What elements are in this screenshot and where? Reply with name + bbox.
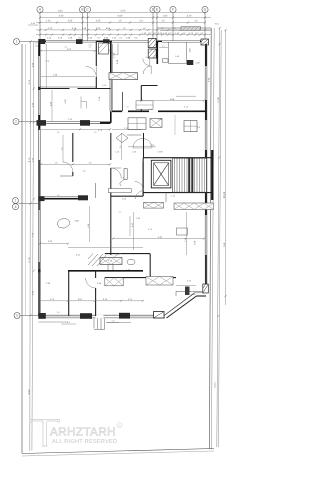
bench box low [108, 189, 131, 193]
casework boxes x136 [136, 101, 153, 110]
south wall door gap [96, 315, 104, 318]
watermark T logo [30, 420, 60, 447]
closet crossed bar east [174, 203, 214, 210]
stair rail dark band [188, 158, 193, 193]
west wall window lines [37, 44, 39, 316]
south dim 1.4 b [107, 322, 119, 324]
kitchen counter 2 [150, 118, 162, 127]
svg-text:G: G [204, 8, 207, 12]
svg-text:6.60: 6.60 [118, 15, 123, 18]
stair hall top wall [143, 157, 213, 159]
svg-text:1: 1 [16, 40, 18, 44]
bath sink [127, 259, 135, 265]
svg-text:2: 2 [15, 199, 17, 203]
dim row 5 numbers [36, 34, 211, 36]
svg-text:2.55: 2.55 [68, 20, 73, 23]
right dim line B [225, 30, 227, 305]
north wall window w1 [46, 40, 57, 42]
lot boundary left inner [25, 44, 27, 316]
wall v x142 center low [142, 162, 144, 196]
column NW [38, 39, 45, 44]
hex shape [116, 134, 128, 143]
grid bubble E top [154, 6, 160, 12]
chamfer to east wall join [197, 295, 207, 297]
elevator shaft [151, 160, 171, 188]
svg-text:ALL RIGHT RESERVED: ALL RIGHT RESERVED [52, 439, 117, 445]
grid bubble G top [202, 6, 208, 12]
svg-text:2: 2 [15, 120, 17, 124]
dim 3.05 room big left [51, 90, 53, 121]
bath walls [105, 253, 150, 255]
boundary wall dark at stairs [211, 150, 213, 200]
door leaf top [163, 59, 169, 62]
wall v x96 upper [95, 41, 97, 66]
lot boundary right outer [210, 28, 212, 449]
grid bubble 1b left [13, 119, 19, 125]
dim 2.71 chamfer [176, 285, 196, 287]
pier S3 [154, 312, 165, 319]
wall v x72 low [72, 172, 74, 176]
wall h y88 [40, 88, 70, 90]
terrace line sw [39, 321, 69, 323]
grid line 2-3 stem [19, 203, 39, 205]
door leaf x126 [124, 169, 127, 180]
dim v x63 y135-162 [62, 135, 64, 162]
small dim top right room [159, 47, 168, 49]
chamfer wall SE [167, 296, 197, 318]
wall h y122 window lines [40, 121, 110, 123]
grid bubble 1 left [14, 39, 20, 45]
dim arrows y96 left [176, 95, 196, 97]
west wall thick seg1 [38, 41, 40, 56]
svg-text:F: F [172, 8, 174, 12]
lot boundary bottom outer [22, 449, 214, 454]
wall v x68 [68, 271, 70, 316]
wall v x141 center [140, 86, 142, 112]
north wall window 1 [112, 40, 148, 42]
west wall thick seg4 [38, 262, 40, 318]
kitchen dim v x175 [174, 115, 176, 135]
grid bubble B top [79, 6, 85, 12]
dim 4.41 room [113, 238, 204, 240]
dim 2.40 room1 v [41, 75, 95, 77]
svg-text:+2.98: +2.98 [157, 151, 163, 154]
closet L-step big room [81, 97, 87, 109]
dim 4.66 big right [142, 100, 205, 102]
blob dark chamfer area [185, 287, 190, 296]
wall v x96 lower [95, 77, 97, 89]
svg-text:1.60: 1.60 [163, 15, 168, 18]
extra dim v x130 y214-238 [129, 216, 131, 236]
svg-text:4.66: 4.66 [170, 98, 175, 101]
grid bubble 5 left [14, 313, 20, 319]
column N2 [76, 39, 83, 44]
dim row y129 left [39, 128, 110, 130]
dim row 2 [40, 17, 211, 19]
grid line B stem [82, 13, 84, 41]
wall v x122 small [122, 92, 124, 111]
crossed service box [109, 73, 138, 80]
wall v x112 second [112, 44, 114, 110]
bath door arc [113, 254, 121, 262]
door arc stair west [135, 182, 144, 191]
diag hatch patch [88, 254, 106, 267]
svg-text:31.05: 31.05 [223, 191, 226, 198]
north wall window w2 [57, 40, 96, 42]
terrace line s mid [106, 321, 131, 323]
window crossed south 2 [100, 258, 122, 265]
extra dim h y147 doors [128, 146, 156, 148]
dim v x121 y133-160 [121, 133, 123, 160]
north wall east segment [200, 40, 207, 42]
west wall thick seg2 [38, 115, 40, 130]
wall v x95 [95, 271, 97, 278]
svg-text:8.10: 8.10 [28, 157, 31, 162]
svg-text:4.50: 4.50 [28, 389, 31, 394]
dim row 3 [36, 22, 205, 24]
grid line C stem [87, 13, 89, 41]
extra dim v x46 [45, 44, 47, 88]
window crossed south 1 [146, 277, 173, 286]
grid line E stem [156, 13, 158, 40]
south wall window lines [39, 314, 166, 316]
wall h y199 west [39, 198, 88, 200]
svg-text:11.35: 11.35 [217, 96, 220, 102]
svg-text:+0.45: +0.45 [190, 293, 196, 296]
grid bubble D top [150, 6, 156, 12]
bath wc [108, 264, 113, 271]
svg-text:1.60: 1.60 [58, 10, 63, 13]
svg-text:4.41: 4.41 [158, 236, 163, 239]
door arc lower room [136, 191, 145, 199]
west wall thick seg3 [38, 160, 40, 210]
column N3 [103, 39, 110, 44]
niche h y63 [169, 63, 187, 65]
wall h y176 [60, 175, 73, 177]
svg-text:R: R [118, 423, 120, 427]
left dim line B [32, 42, 34, 451]
closet divider x95 [95, 183, 97, 198]
wall v x143 mid [143, 133, 145, 158]
column S2 [119, 313, 130, 319]
north door arc [107, 44, 118, 55]
cloud ellipse [57, 219, 69, 228]
tiny marks left of wall [35, 43, 38, 46]
pier y199 end [78, 195, 88, 200]
column N4 hatched [148, 39, 156, 59]
wall stub x166 y196-203 [165, 193, 167, 203]
wall h y85 center [141, 85, 157, 87]
column niche [187, 60, 194, 65]
wall h y122 seg east [100, 122, 111, 124]
grid line D stem [152, 13, 154, 40]
south dim 1.4 a [61, 323, 76, 325]
door arc center [143, 66, 151, 74]
north wall west segment [39, 40, 47, 42]
lot boundary right inner [211, 28, 214, 450]
porch steps below south wall [94, 319, 105, 330]
column SW [38, 313, 46, 319]
dim y164 row left [41, 163, 110, 165]
grid bubble 3 left [13, 204, 19, 210]
right dim line A2 [218, 30, 221, 447]
west wall junction y88 [38, 87, 41, 90]
pier y122 west [37, 120, 47, 126]
west wall junction y270 [38, 269, 41, 272]
grid line 1 stem [20, 41, 39, 43]
dim row y300 [39, 300, 143, 302]
grid line G stem [204, 13, 206, 44]
pier y199 [39, 196, 45, 201]
kitchen counter 1 [128, 118, 146, 130]
watermark R mark [117, 423, 122, 428]
grid bubble A top [37, 6, 43, 12]
door arc x95 [86, 278, 96, 288]
dim y129 small row [112, 129, 141, 131]
dim v x89 rot [89, 206, 91, 242]
dim 6.11 top [68, 247, 143, 249]
svg-text:7.66: 7.66 [223, 242, 226, 247]
window right wall rect [177, 228, 188, 235]
svg-text:13.10: 13.10 [213, 381, 216, 387]
wall v x110 seg2 [110, 168, 112, 255]
lot boundary top right [157, 27, 211, 29]
svg-text:5: 5 [16, 314, 18, 318]
wall h y270 thick [68, 270, 143, 272]
svg-text:8.10: 8.10 [28, 79, 31, 84]
niche v x186 [186, 42, 188, 64]
door arc room D [143, 59, 150, 66]
wall v x110 thin mid [109, 80, 111, 112]
stair hall bottom wall [143, 192, 213, 194]
wall v x110 main [110, 41, 112, 73]
north wall window 2 [162, 40, 200, 42]
svg-text:3.20: 3.20 [187, 15, 192, 18]
svg-text:2.25: 2.25 [96, 20, 101, 23]
north wall seg 96-112 [96, 40, 112, 42]
right dim line A [217, 28, 220, 447]
wall v x157 top rooms [156, 41, 158, 64]
door arc x72 [63, 162, 73, 172]
wall h y196 center [111, 195, 143, 197]
column NE hatched [201, 39, 209, 45]
column S1b [80, 313, 92, 319]
grid bubble F top [170, 6, 176, 12]
svg-text:3: 3 [15, 205, 17, 209]
squiggle symbol [120, 177, 124, 186]
column SE hatched [203, 284, 209, 293]
grid line F stem [172, 13, 174, 41]
dim v x186 room [186, 212, 188, 255]
neighbour wall hatched top right [181, 27, 201, 30]
wall h y110 gap west [122, 110, 128, 112]
step edge below chamfer [176, 290, 203, 292]
north wall mid segment [148, 40, 162, 42]
pier y122 mid [80, 120, 90, 126]
stair west wall [142, 158, 144, 196]
door arc room1 [86, 67, 97, 78]
svg-text:7.66: 7.66 [194, 240, 197, 245]
label 0.60 top left [28, 24, 38, 26]
window crossed south 1b [105, 278, 123, 286]
grid line 5 stem [20, 315, 38, 317]
svg-text:1.70: 1.70 [46, 20, 51, 23]
east wall thick seg1 [205, 44, 207, 66]
grid line 1b stem [19, 121, 38, 123]
closet crossed bar west [144, 202, 164, 208]
grid line A stem [39, 13, 41, 41]
dim v x133 room [133, 212, 135, 250]
grid bubble C top [84, 6, 90, 12]
wall v x110 pier low [110, 111, 112, 123]
dim row 1 overall [40, 12, 205, 14]
grid bubble 2 left [13, 198, 19, 204]
stair flight treads [173, 158, 207, 192]
double door arcs center [133, 139, 152, 149]
east wall window lines [204, 46, 206, 293]
svg-text:5.00: 5.00 [121, 10, 126, 13]
kitchen small box [184, 121, 197, 132]
niche v x168 [168, 42, 170, 64]
dim row 4 [36, 29, 211, 31]
wall v x72 [72, 133, 74, 162]
east wall thick seg2 [205, 100, 207, 120]
wall h y110 right wing [112, 110, 206, 112]
duct box x99-110 [99, 43, 109, 54]
svg-text:4.40: 4.40 [59, 15, 64, 18]
wall h y135 stub [127, 134, 141, 136]
door arc x110 [111, 168, 122, 179]
lot boundary left outer [21, 44, 23, 454]
east wall thick seg3 [205, 150, 207, 215]
left dim line A [29, 42, 32, 451]
lot boundary bottom inner [22, 451, 214, 456]
wall v x110 lower [110, 133, 112, 160]
dim 2.02 room1 [41, 50, 95, 52]
svg-text:11.20: 11.20 [28, 256, 31, 262]
svg-text:ARHZTARH: ARHZTARH [50, 426, 116, 439]
wall h y110 gap door [149, 110, 158, 112]
east wall thick seg4 [205, 255, 207, 293]
dim 2.03 short [40, 243, 68, 245]
